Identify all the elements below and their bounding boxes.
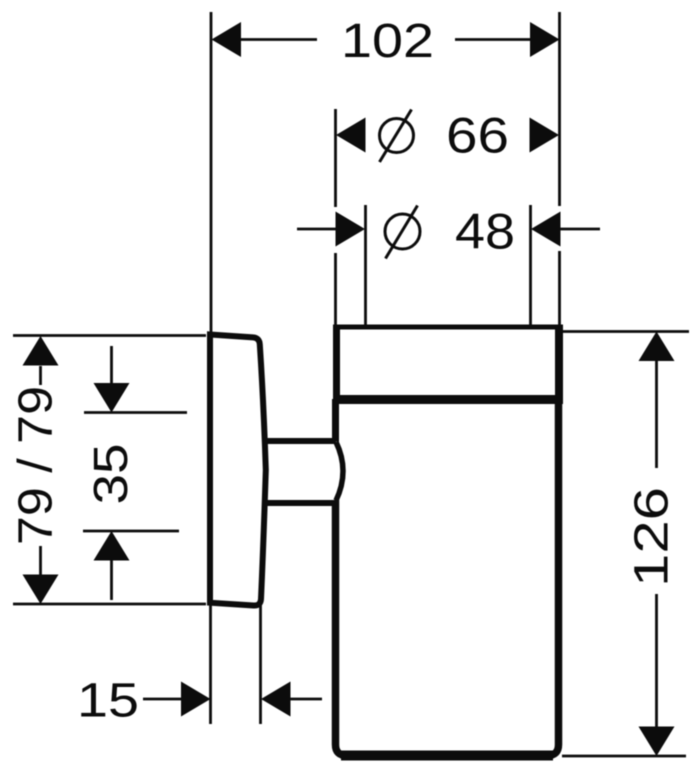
cup rim left edge [333,325,340,400]
dimension line 126 lower segment [655,594,658,727]
arrow 15 left (points right) [181,682,211,717]
dimension 48 right tail [559,228,600,231]
diameter symbol 48 [385,206,420,259]
extension line 126 bottom [562,755,686,758]
stem bottom line [262,500,336,506]
arrow 48 left (points right) [336,212,366,247]
svg-text:102: 102 [341,15,434,68]
arrow 126 top (points up) [639,332,675,362]
extension line 35 bottom [83,530,179,533]
extension line 79 bottom [13,603,206,606]
dimension 15 left tail [143,698,182,701]
arrow 66 left [336,118,366,153]
arrow 102 left [212,22,242,57]
dimension 15 right tail [290,698,322,701]
cup rim right edge [555,325,563,405]
arrow 15 right (points left) [261,682,291,717]
svg-text:48: 48 [455,204,515,260]
extension line 66 left lower [334,253,337,326]
svg-text:79 / 79: 79 / 79 [10,386,63,545]
arrow 35 top (points down) [94,383,130,413]
extension line 79 top [13,334,206,337]
arrow 79 top (points up) [23,336,59,366]
stem top line [262,438,336,444]
arrow 79 bottom (points down) [23,575,59,605]
dimension line 102 left segment [241,38,317,41]
dimension 35 bottom tail [110,561,113,601]
cup rim bottom divider [333,395,563,404]
cup body left edge upper [332,399,339,442]
svg-text:15: 15 [77,675,139,728]
wall plate [210,335,266,606]
dimension line 79 lower segment [39,546,42,575]
dimension 48 left tail [297,228,337,231]
diameter symbol 66 [380,110,414,163]
extension line 15 left (below plate) [209,600,212,724]
arrow 48 right (points left) [531,212,561,247]
dimension line 102 right segment [455,38,530,41]
stem end bulge [336,442,343,501]
dimension 35 top tail [110,346,113,383]
arrow 66 right [530,118,560,153]
cup body outline [336,401,559,756]
extension line 102/66 right lower [558,251,561,326]
extension line 35 top [84,411,187,414]
svg-text:66: 66 [446,108,509,164]
arrow 126 bottom (points down) [639,727,675,757]
extension line 102 left (above plate) [210,12,213,333]
extension line 15 right [259,603,262,724]
extension line 66 left upper [334,109,337,207]
extension line 48 left [364,205,367,326]
arrow 35 bottom (points up) [94,531,130,561]
dimension line 79 upper segment [39,366,42,385]
extension line 102/66 right upper [558,12,561,206]
cup rim top edge [333,325,563,330]
svg-text:35: 35 [85,444,138,505]
dimension line 126 upper segment [655,361,658,468]
arrow 102 right [530,22,560,57]
extension line 48 right [529,205,532,326]
extension line 126 top [556,330,689,333]
svg-text:126: 126 [626,487,679,587]
cup bottom edge [341,751,553,761]
